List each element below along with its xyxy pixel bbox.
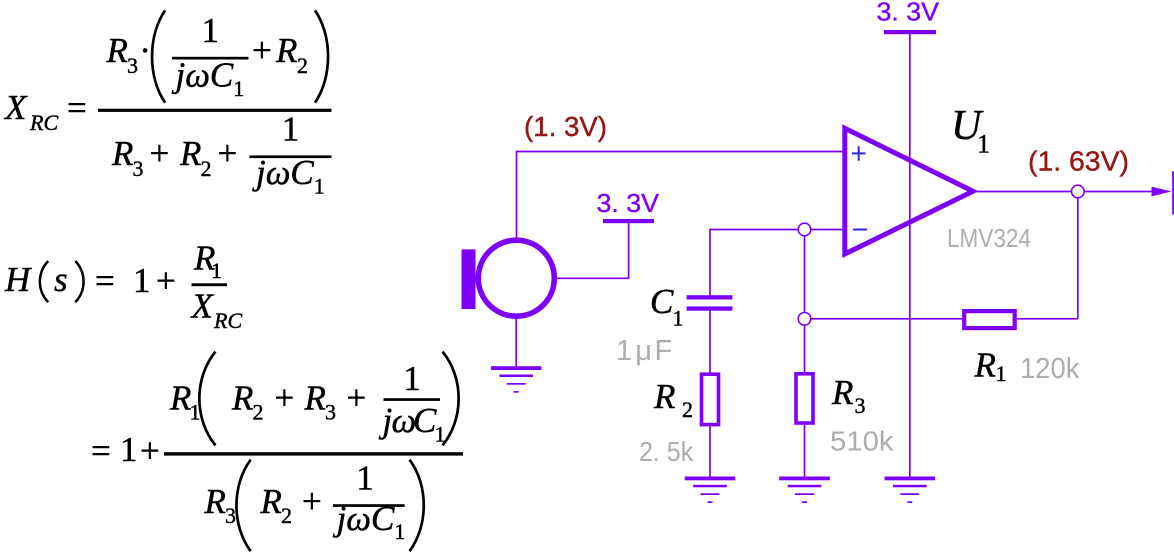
svg-text:1: 1	[133, 261, 151, 300]
svg-text:F: F	[655, 335, 673, 367]
svg-text:C: C	[371, 499, 395, 538]
svg-text:1: 1	[403, 359, 421, 398]
svg-text:3. 3V: 3. 3V	[877, 0, 940, 27]
svg-text:ω: ω	[266, 153, 291, 192]
svg-text:+: +	[347, 379, 367, 418]
svg-text:+: +	[275, 379, 295, 418]
svg-text:C: C	[650, 282, 674, 321]
svg-text:ω: ω	[346, 499, 371, 538]
svg-text:j: j	[252, 153, 266, 192]
svg-text:1: 1	[211, 258, 222, 283]
svg-text:RC: RC	[29, 110, 58, 135]
svg-text:H: H	[4, 260, 32, 299]
svg-text:2. 5k: 2. 5k	[639, 436, 694, 467]
svg-text:X: X	[190, 287, 215, 326]
svg-text:1: 1	[616, 335, 632, 367]
svg-text:1: 1	[996, 361, 1007, 386]
svg-text:C: C	[290, 153, 314, 192]
svg-text:2: 2	[281, 503, 292, 528]
svg-text:=: =	[95, 262, 115, 301]
svg-text:R: R	[204, 482, 226, 521]
svg-text:2: 2	[682, 397, 693, 422]
svg-text:3: 3	[127, 53, 138, 78]
svg-text:3: 3	[133, 156, 144, 181]
svg-text:R: R	[106, 31, 128, 70]
svg-text:2: 2	[253, 400, 264, 425]
svg-text:μ: μ	[635, 335, 652, 367]
svg-text:R: R	[275, 31, 297, 70]
svg-text:+: +	[150, 134, 170, 173]
svg-text:·: ·	[139, 31, 151, 70]
svg-text:2: 2	[201, 156, 212, 181]
svg-text:ω: ω	[185, 56, 210, 95]
svg-text:1: 1	[977, 130, 990, 159]
svg-text:+: +	[156, 262, 176, 301]
svg-text:3: 3	[325, 400, 336, 425]
svg-text:j: j	[379, 401, 393, 440]
svg-text:R: R	[831, 373, 853, 412]
svg-text:=: =	[91, 431, 111, 470]
svg-text:R: R	[260, 482, 282, 521]
svg-text:(1. 3V): (1. 3V)	[524, 111, 607, 142]
svg-text:1: 1	[394, 519, 405, 544]
svg-text:RC: RC	[213, 308, 242, 333]
svg-text:+: +	[252, 31, 272, 70]
svg-text:1: 1	[120, 430, 138, 469]
svg-text:1: 1	[282, 110, 300, 149]
svg-text:R: R	[304, 379, 326, 418]
svg-text:1: 1	[233, 76, 244, 101]
svg-text:R: R	[653, 377, 675, 416]
svg-text:510k: 510k	[830, 426, 895, 457]
svg-text:j: j	[172, 56, 186, 95]
svg-text:R: R	[231, 379, 253, 418]
svg-text:R: R	[179, 134, 201, 173]
svg-text:s: s	[54, 260, 68, 299]
svg-text:C: C	[413, 401, 437, 440]
svg-text:1: 1	[202, 11, 220, 50]
svg-text:1: 1	[314, 174, 325, 199]
svg-text:LMV324: LMV324	[947, 223, 1031, 253]
svg-text:R: R	[111, 134, 133, 173]
svg-text:R: R	[974, 345, 996, 384]
svg-text:R: R	[169, 379, 191, 418]
svg-text:120k: 120k	[1020, 353, 1080, 385]
svg-text:1: 1	[673, 306, 684, 331]
svg-text:(1. 63V): (1. 63V)	[1028, 146, 1129, 177]
svg-text:=: =	[67, 89, 87, 128]
svg-text:X: X	[3, 88, 28, 127]
svg-text:1: 1	[356, 458, 374, 497]
svg-text:+: +	[218, 134, 238, 173]
svg-text:3. 3V: 3. 3V	[597, 188, 660, 218]
svg-text:+: +	[140, 431, 160, 470]
svg-text:2: 2	[297, 53, 308, 78]
svg-text:3: 3	[855, 393, 866, 418]
svg-text:C: C	[210, 56, 234, 95]
svg-text:+: +	[302, 482, 322, 521]
svg-text:3: 3	[225, 503, 236, 528]
